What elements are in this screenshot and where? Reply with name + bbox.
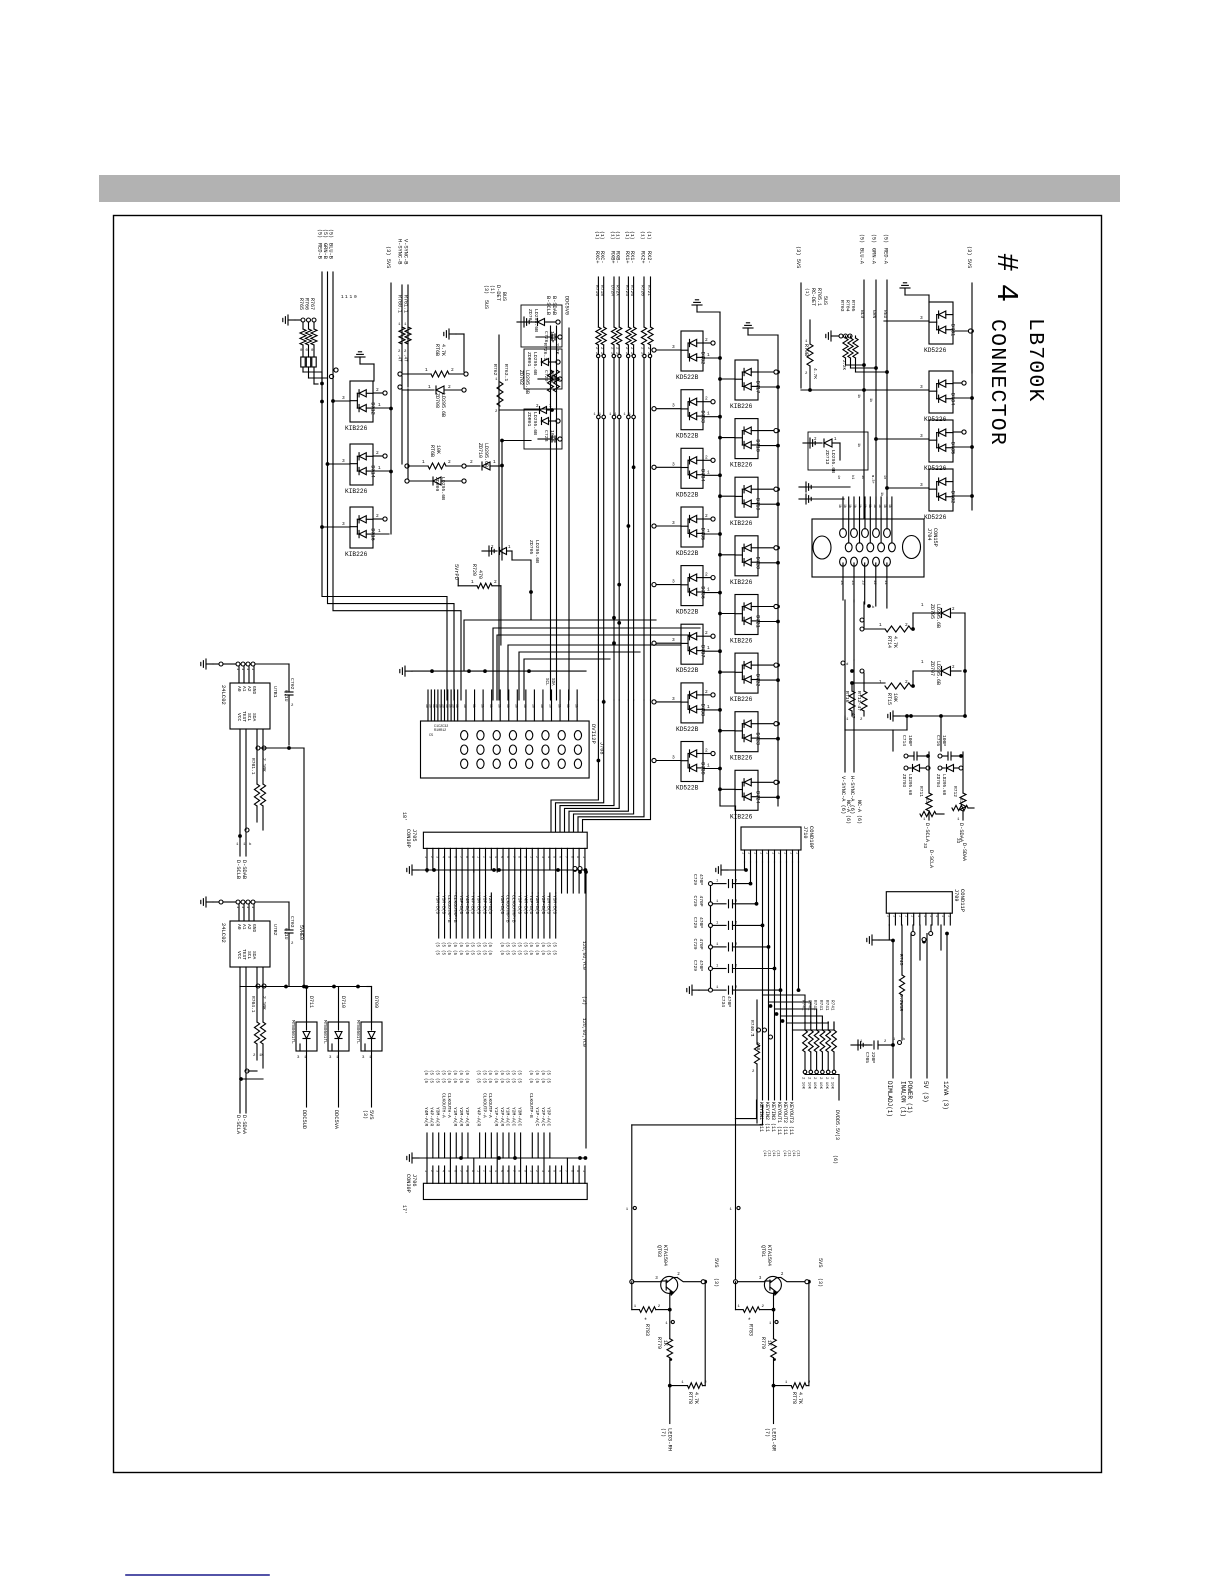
svg-text:(5: (5 <box>528 1070 533 1076</box>
svg-text:ZD707: ZD707 <box>929 661 935 676</box>
svg-text:R716: R716 <box>594 285 600 296</box>
svg-text:C729: C729 <box>692 939 698 950</box>
svg-text:D701: D701 <box>950 324 956 336</box>
svg-text:(5: (5 <box>458 1078 463 1084</box>
svg-text:1: 1 <box>245 906 249 908</box>
svg-text:U7B1: U7B1 <box>272 686 278 698</box>
junction R704 cluster <box>862 363 866 367</box>
svg-text:RT6B: RT6B <box>434 344 440 356</box>
svg-text:R712: R712 <box>952 786 958 797</box>
svg-text:470P: 470P <box>726 996 732 1007</box>
svg-text:1: 1 <box>777 852 781 854</box>
ground DVI bus <box>405 670 412 672</box>
resistor R705 <box>853 338 858 358</box>
svg-text:LD295.6B: LD295.6B <box>533 309 539 332</box>
svg-text:9: 9 <box>470 1170 474 1172</box>
svg-text:J709: J709 <box>953 889 959 901</box>
wires DVI pins top <box>427 690 429 721</box>
svg-text:Y3P-A(C: Y3P-A(C <box>546 1107 552 1127</box>
wire pin3 D733 <box>656 408 681 410</box>
resistor R704 <box>848 338 853 358</box>
svg-text:3: 3 <box>435 856 439 858</box>
svg-text:1b: 1b <box>523 704 527 708</box>
svg-text:(5: (5 <box>464 1078 469 1084</box>
wire pin3 D722 <box>720 671 735 673</box>
svg-text:(7): (7) <box>660 1428 666 1437</box>
svg-text:100P: 100P <box>907 735 913 746</box>
svg-text:2: 2 <box>705 572 708 578</box>
svg-text:1: 1 <box>707 411 710 417</box>
svg-text:2 10K: 2 10K <box>806 1077 810 1090</box>
diode network D737 (KD522B) <box>681 624 703 664</box>
svg-text:RX1+: RX1+ <box>624 251 630 263</box>
svg-text:1: 1 <box>425 367 428 373</box>
svg-text:(6): (6) <box>832 1155 838 1164</box>
zener ZD713 LD295.6B <box>803 442 810 444</box>
svg-text:*: * <box>644 1317 648 1324</box>
wire pin2 D724 <box>758 781 774 783</box>
svg-text:D-SCLA: D-SCLA <box>235 1115 241 1135</box>
wire pin3 D736 <box>656 584 681 586</box>
svg-text:Y3M-B(D: Y3M-B(D <box>475 895 481 915</box>
svg-text:1b: 1b <box>489 704 493 708</box>
svg-text:(1): (1) <box>629 231 635 240</box>
svg-text:CON15P: CON15P <box>932 528 938 547</box>
svg-text:1: 1 <box>928 915 932 917</box>
svg-text:(5: (5 <box>505 1070 510 1076</box>
svg-text:Y2M-A(C: Y2M-A(C <box>511 1107 517 1127</box>
svg-text:(5: (5 <box>464 950 469 956</box>
ground J710 <box>721 869 728 871</box>
wire base QT03 <box>630 1280 634 1284</box>
svg-text:1b: 1b <box>860 475 865 479</box>
svg-text:5: 5 <box>446 856 450 858</box>
svg-text:Y5M-B(D: Y5M-B(D <box>552 895 558 915</box>
wire pin3 D724 <box>720 788 735 790</box>
svg-text:1b: 1b <box>566 704 570 708</box>
wires MTB bottoms <box>306 1051 308 1107</box>
svg-text:V-SYNC-B: V-SYNC-B <box>403 239 409 264</box>
svg-text:1: 1 <box>476 856 480 858</box>
svg-text:R726: R726 <box>629 285 635 296</box>
svg-text:R703: R703 <box>839 300 845 312</box>
svg-text:POWER (1): POWER (1) <box>906 1081 913 1113</box>
svg-text:DIMLADJ(1): DIMLADJ(1) <box>886 1081 893 1117</box>
svg-text:4: 4 <box>546 856 550 858</box>
svg-text:CLKOUTH-A: CLKOUTH-A <box>446 1093 452 1118</box>
diode network D739 (KD522B) <box>681 742 703 782</box>
svg-text:LD295.6B: LD295.6B <box>935 661 941 685</box>
svg-text:8: 8 <box>517 856 521 858</box>
ground RT bus <box>893 715 900 717</box>
wire RED-B <box>321 272 323 388</box>
svg-text:18': 18' <box>401 812 407 821</box>
svg-text:C729: C729 <box>692 896 698 907</box>
svg-text:R760.1: R760.1 <box>397 295 403 313</box>
svg-text:(5: (5 <box>481 1070 486 1076</box>
svg-text:(5: (5 <box>487 1070 492 1076</box>
svg-text:KD5226: KD5226 <box>924 347 947 354</box>
svg-text:(5: (5 <box>452 1078 457 1084</box>
svg-text:6: 6 <box>505 856 509 858</box>
svg-text:KEYIN2 (11: KEYIN2 (11 <box>764 1102 770 1132</box>
svg-text:(5: (5 <box>534 942 539 948</box>
svg-text:RXB+: RXB+ <box>609 251 615 263</box>
wire pin1 D720 <box>758 562 776 564</box>
svg-text:2: 2 <box>705 454 708 460</box>
svg-text:Y1P-A(C: Y1P-A(C <box>534 1107 540 1127</box>
wire U702 SDA/SCL down <box>239 967 241 1079</box>
schematic frame <box>114 216 1102 1473</box>
wires RX pairs <box>597 277 599 327</box>
diode network D732 (KD522B) <box>681 331 703 371</box>
svg-text:3: 3 <box>540 856 544 858</box>
wire DDC5V0 <box>568 328 570 700</box>
svg-text:C703: C703 <box>289 916 295 928</box>
svg-text:BLU-B: BLU-B <box>328 243 334 259</box>
svg-text:3: 3 <box>540 1170 544 1172</box>
svg-text:RED-B: RED-B <box>317 243 323 259</box>
wire pin2 D738 <box>703 694 711 696</box>
svg-text:RXC+: RXC+ <box>594 251 600 263</box>
svg-text:(5: (5 <box>435 942 440 948</box>
svg-text:1: 1 <box>707 352 710 358</box>
svg-text:1: 1 <box>350 294 353 300</box>
resistor B-SCLB <box>548 370 554 392</box>
svg-text:BLU: BLU <box>859 310 865 319</box>
svg-text:RX2-: RX2- <box>646 251 652 263</box>
svg-text:3: 3 <box>920 482 923 488</box>
svg-text:DDC5VA: DDC5VA <box>333 1110 339 1130</box>
svg-text:2: 2 <box>905 679 908 685</box>
svg-text:3: 3 <box>672 696 675 702</box>
svg-text:KIB226: KIB226 <box>730 755 753 762</box>
svg-text:Y3M-B(D: Y3M-B(D <box>534 895 540 915</box>
svg-text:ZD705: ZD705 <box>929 604 935 619</box>
connector J706 CON30P <box>423 1183 587 1199</box>
wire bends to resistor bank <box>763 995 806 1022</box>
svg-text:D704: D704 <box>950 393 956 405</box>
svg-text:QT03: QT03 <box>656 1245 662 1257</box>
svg-text:C72B: C72B <box>543 430 549 442</box>
svg-text:(3): (3) <box>581 996 587 1005</box>
svg-text:2: 2 <box>705 748 708 754</box>
diode network D734 (KD522B) <box>681 448 703 488</box>
footer blue line <box>126 1574 269 1576</box>
svg-text:Y2M-B(D: Y2M-B(D <box>546 895 552 915</box>
zener ZD704 <box>938 766 942 770</box>
svg-text:(5: (5 <box>446 942 451 948</box>
svg-text:(5: (5 <box>528 1078 533 1084</box>
svg-text:3: 3 <box>672 520 675 526</box>
svg-text:Y3P-A(R: Y3P-A(R <box>464 1107 470 1127</box>
svg-text:3: 3 <box>672 344 675 350</box>
svg-text:2: 2 <box>376 513 379 519</box>
svg-text:5US: 5US <box>483 300 489 309</box>
diode network D701 (KD5226) <box>929 302 953 344</box>
svg-text:2: 2 <box>705 513 708 519</box>
svg-text:1: 1 <box>765 852 769 854</box>
svg-text:COND11P: COND11P <box>959 889 966 912</box>
wires J710 pin columns down <box>750 862 752 884</box>
svg-text:B-SDAB: B-SDAB <box>551 296 557 315</box>
wire pin3 D739 <box>656 760 681 762</box>
svg-text:1: 1 <box>345 294 348 300</box>
svg-text:(11: (11 <box>771 1150 776 1156</box>
wire D702 pin3 <box>887 487 929 489</box>
svg-text:(5: (5 <box>516 942 521 948</box>
resistor R703 <box>843 338 848 358</box>
svg-text:(5: (5 <box>546 950 551 956</box>
wire pin3 D723 <box>720 730 735 732</box>
svg-text:3: 3 <box>920 315 923 321</box>
svg-text:9: 9 <box>470 856 474 858</box>
svg-text:3: 3 <box>342 458 345 464</box>
wire U701 SDA/SCL down <box>239 729 241 836</box>
terminal circles R765 cluster <box>301 318 305 322</box>
svg-text:GRN-A: GRN-A <box>871 248 877 265</box>
svg-text:U7B2: U7B2 <box>272 924 278 936</box>
svg-text:Y1M-A(R: Y1M-A(R <box>452 1107 458 1127</box>
svg-text:CLKOUTP-A: CLKOUTP-A <box>481 1093 487 1118</box>
wire pin2 D733 <box>703 401 711 403</box>
svg-text:CLKOUTMP-B: CLKOUTMP-B <box>511 895 517 923</box>
svg-text:12U,5U,YC0: 12U,5U,YC0 <box>581 1018 587 1047</box>
ground chain left <box>696 305 698 312</box>
svg-text:1: 1 <box>940 915 944 917</box>
svg-text:4: 4 <box>493 1170 497 1172</box>
svg-text:(3) 5VS: (3) 5VS <box>385 246 391 268</box>
ground above D712 <box>359 357 361 364</box>
svg-text:R718: R718 <box>599 285 605 296</box>
wire dscl branch <box>940 716 942 751</box>
transistor QT03 (KTA1504) <box>661 1276 678 1293</box>
svg-text:COND10P: COND10P <box>808 826 815 849</box>
svg-text:R711: R711 <box>918 786 924 797</box>
wire feed QT03 <box>631 1125 633 1282</box>
wire feed QT03 from KEYOUT <box>632 1105 763 1125</box>
svg-text:R767: R767 <box>309 298 315 310</box>
diode D710 (MTB0501TL) <box>328 1022 349 1051</box>
svg-text:1: 1 <box>245 668 249 670</box>
svg-text:(3): (3) <box>483 285 489 294</box>
svg-text:NC-A (6): NC-A (6) <box>856 800 862 824</box>
wire base QT01 <box>734 1280 738 1284</box>
wire pin3 D721 <box>720 613 735 615</box>
svg-text:14: 14 <box>850 580 854 585</box>
svg-text:R761.1: R761.1 <box>403 295 409 313</box>
svg-text:5US: 5US <box>822 296 828 305</box>
wire pin3 D714 <box>328 463 351 465</box>
svg-text:2: 2 <box>482 1170 486 1172</box>
junction dots J710 bends <box>769 1004 773 1008</box>
svg-text:D72A: D72A <box>609 285 615 296</box>
wires RX bends into CON30P <box>551 700 598 832</box>
svg-text:KD522B: KD522B <box>676 726 699 733</box>
svg-text:(5: (5 <box>534 1078 539 1084</box>
svg-text:470P: 470P <box>698 917 704 928</box>
svg-text:LD295.6B: LD295.6B <box>524 370 530 394</box>
svg-text:Y2P-A(C: Y2P-A(C <box>540 1107 546 1127</box>
ground RT6B <box>449 333 456 335</box>
svg-text:(1): (1) <box>804 288 810 296</box>
wire D712 pin2 <box>373 392 383 394</box>
svg-text:Y4P-B(D: Y4P-B(D <box>470 895 476 915</box>
wire pin1 D718 <box>758 445 776 447</box>
svg-text:2: 2 <box>482 856 486 858</box>
svg-text:(5: (5 <box>534 950 539 956</box>
diode network D723 (KIB226) <box>735 712 758 752</box>
svg-text:2: 2 <box>705 630 708 636</box>
svg-text:5: 5 <box>552 1170 556 1172</box>
svg-text:1: 1 <box>879 679 882 685</box>
wire pin3 D738 <box>656 701 681 703</box>
ground CON30P bottom <box>412 1157 419 1159</box>
wire pin1 D723 <box>758 738 776 740</box>
wire pin2 D721 <box>758 606 774 608</box>
svg-text:1b: 1b <box>540 704 544 708</box>
wire pin3 D716 <box>322 526 350 528</box>
wire D716 pin1 <box>373 533 389 535</box>
svg-text:BLU-A: BLU-A <box>859 248 865 265</box>
wire bus chain A <box>719 312 721 790</box>
wire pin1 D738 <box>703 709 718 711</box>
svg-text:(5: (5 <box>505 950 510 956</box>
svg-text:2: 2 <box>534 856 538 858</box>
svg-text:1: 1 <box>423 856 427 858</box>
svg-text:RXC-: RXC- <box>599 251 605 263</box>
svg-text:7: 7 <box>458 856 462 858</box>
ground J709 <box>872 939 879 941</box>
svg-text:(5: (5 <box>546 942 551 948</box>
wire GRN-B <box>327 272 329 378</box>
svg-text:9: 9 <box>575 856 579 858</box>
svg-text:Y3M-A(C: Y3M-A(C <box>516 1107 522 1127</box>
resistor R767 <box>313 322 315 329</box>
svg-text:12: 12 <box>872 580 876 585</box>
svg-text:Y3M-A(R: Y3M-A(R <box>435 1107 441 1127</box>
svg-text:(11: (11 <box>787 1150 792 1156</box>
svg-text:1: 1 <box>528 1170 532 1172</box>
ground for R765 cluster <box>288 319 295 321</box>
svg-text:R783: R783 <box>748 1324 754 1336</box>
wire pin2 D736 <box>703 577 711 579</box>
svg-text:9: 9 <box>522 856 526 858</box>
connector J710 COND10P <box>741 827 801 850</box>
svg-text:(5: (5 <box>552 950 557 956</box>
svg-text:Y4P-A(R: Y4P-A(R <box>475 1107 481 1127</box>
svg-text:1b: 1b <box>867 504 872 508</box>
svg-text:470P: 470P <box>698 874 704 885</box>
svg-text:(5: (5 <box>435 950 440 956</box>
svg-text:ZD713: ZD713 <box>824 450 830 465</box>
svg-text:24LC02: 24LC02 <box>220 923 227 943</box>
svg-text:m-3+: m-3+ <box>870 475 874 484</box>
resistor R765 <box>302 322 304 329</box>
svg-text:CLKOUTP-B: CLKOUTP-B <box>528 1093 534 1118</box>
wires J709 signal columns <box>892 940 894 1078</box>
svg-text:(5: (5 <box>546 1078 551 1084</box>
header gray bar <box>99 175 1120 202</box>
svg-text:LD295.6B: LD295.6B <box>941 774 946 795</box>
svg-text:KEYIN3 (11: KEYIN3 (11 <box>770 1102 776 1132</box>
wire collector QT01 <box>777 1277 781 1279</box>
svg-text:(5: (5 <box>440 950 445 956</box>
svg-text:KD522B: KD522B <box>676 667 699 674</box>
svg-text:(3): (3) <box>362 1110 368 1119</box>
svg-text:2 10K: 2 10K <box>830 1077 834 1090</box>
svg-text:KIB226: KIB226 <box>730 462 753 469</box>
wire pin2 D719 <box>758 488 774 490</box>
svg-text:(11: (11 <box>796 1150 801 1156</box>
svg-text:1: 1 <box>378 465 381 471</box>
diode network D724 (KIB226) <box>735 770 758 810</box>
svg-text:Y5M-B(D: Y5M-B(D <box>499 895 505 915</box>
wire D701 pin1 to 5VS <box>953 330 970 332</box>
ground conn pins 2 <box>799 498 806 500</box>
ground D701 <box>904 288 906 295</box>
wire bead outputs to bus <box>303 372 322 383</box>
svg-text:5VHE0: 5VHE0 <box>298 925 304 940</box>
wire 5VS rail QT01 <box>808 1282 810 1386</box>
svg-text:3: 3 <box>435 1170 439 1172</box>
svg-text:5VS: 5VS <box>368 1110 374 1120</box>
wire D705 pin3 <box>876 438 929 440</box>
svg-text:C705: C705 <box>864 1052 870 1063</box>
diode network D738 (KD522B) <box>681 683 703 723</box>
svg-text:KIB226: KIB226 <box>345 488 368 495</box>
node D-SDAA label <box>962 811 964 820</box>
svg-text:KTA1504: KTA1504 <box>662 1245 668 1266</box>
svg-text:R765: R765 <box>298 298 304 310</box>
svg-text:5VS: 5VS <box>817 1258 823 1268</box>
svg-text:(3): (3) <box>817 1278 823 1287</box>
svg-text:(1): (1) <box>639 231 645 240</box>
svg-text:(5: (5 <box>546 1070 551 1076</box>
svg-text:2: 2 <box>705 689 708 695</box>
svg-text:MTB0501TL: MTB0501TL <box>355 1020 360 1044</box>
wire bus chain B <box>777 335 779 806</box>
svg-text:(5: (5 <box>440 942 445 948</box>
diode network D735 (KD522B) <box>681 507 703 547</box>
zener ZD701/C726 cluster 1 <box>517 321 524 323</box>
svg-text:C702: C702 <box>289 678 295 690</box>
svg-text:KIB226: KIB226 <box>730 696 753 703</box>
svg-text:1: 1 <box>910 915 914 917</box>
svg-text:(5: (5 <box>487 942 492 948</box>
svg-text:RT78: RT78 <box>791 1392 797 1404</box>
svg-text:1: 1 <box>707 645 710 651</box>
diode network D718 (KIB226) <box>735 419 758 459</box>
svg-text:KEYIN1 (11: KEYIN1 (11 <box>758 1102 764 1132</box>
svg-text:R745: R745 <box>898 954 904 966</box>
svg-text:3: 3 <box>342 395 345 401</box>
wire D712 pin1 <box>373 407 389 409</box>
svg-text:470P: 470P <box>698 960 704 971</box>
node D-SCLA label <box>928 811 930 820</box>
svg-text:RT15: RT15 <box>886 693 892 705</box>
ground R703 cluster <box>831 335 838 337</box>
wire RED-A <box>886 280 888 519</box>
svg-text:6: 6 <box>558 856 562 858</box>
svg-text:LD295.6B: LD295.6B <box>532 412 538 435</box>
svg-text:RC-DET: RC-DET <box>810 288 816 306</box>
svg-text:J706: J706 <box>411 1174 417 1186</box>
wire pin1 D717 <box>758 386 776 388</box>
svg-text:R721: R721 <box>646 285 652 296</box>
svg-text:(5: (5 <box>540 1078 545 1084</box>
wire D714 pin1 <box>373 470 389 472</box>
